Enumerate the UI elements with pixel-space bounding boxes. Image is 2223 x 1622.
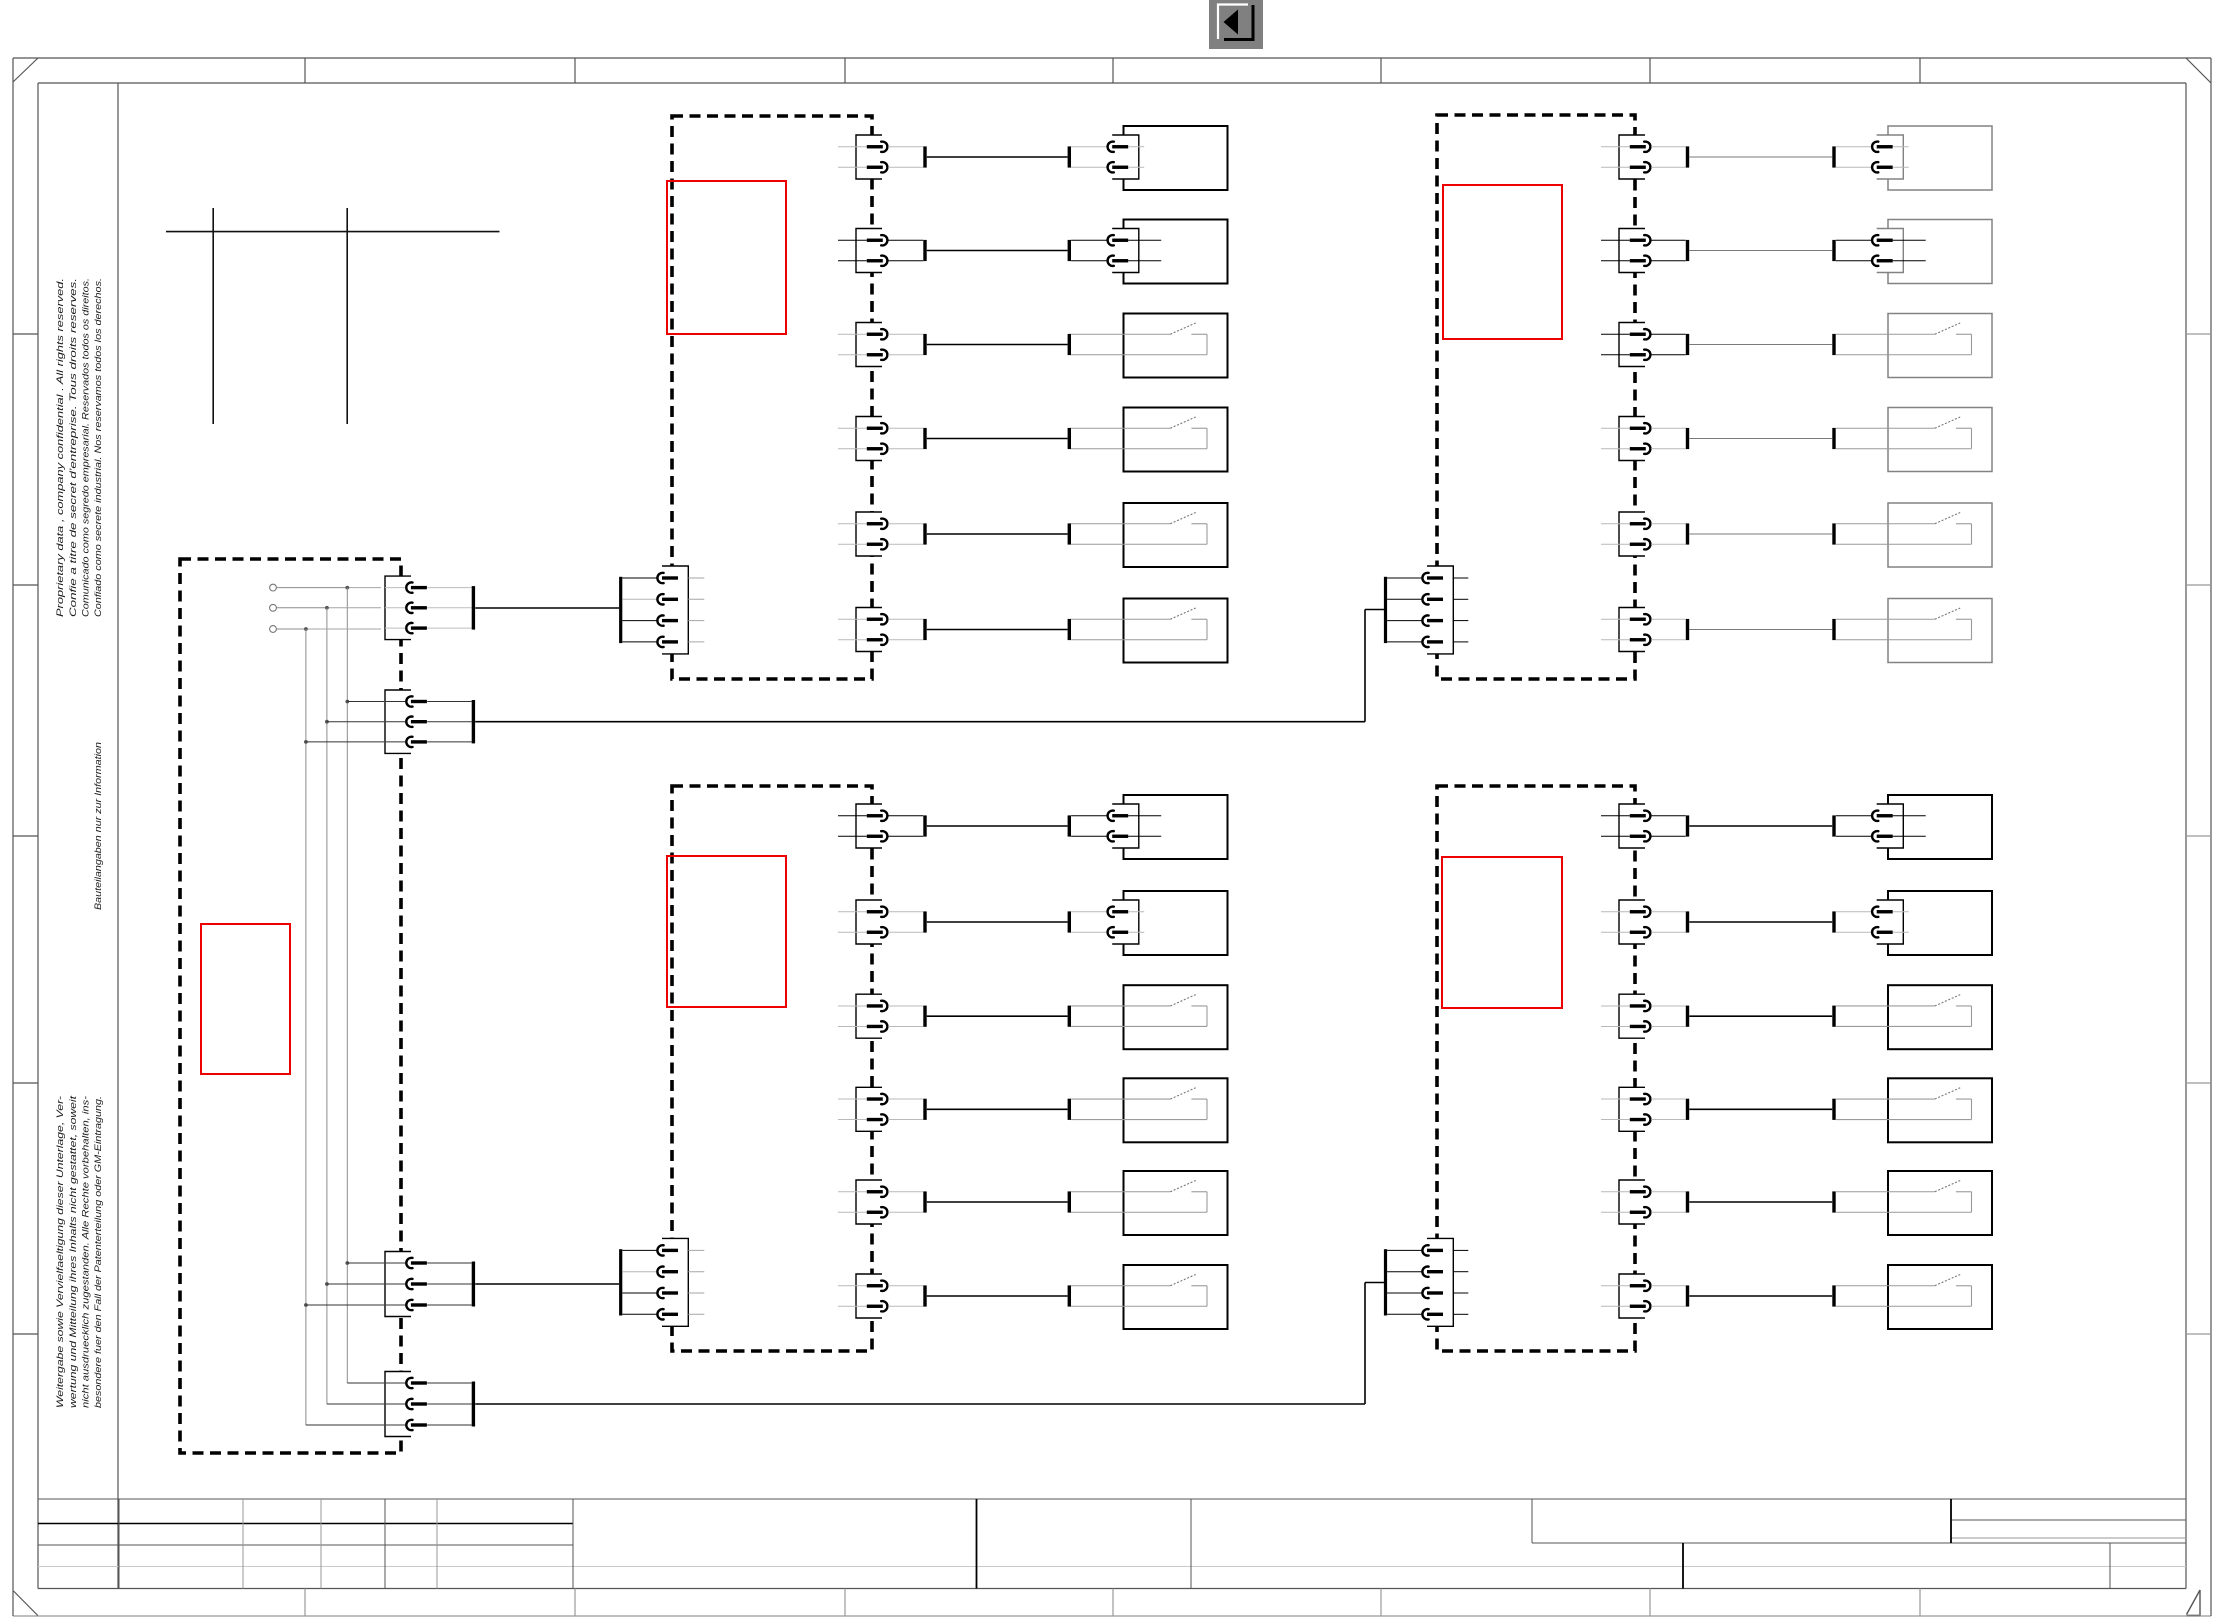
- wire feed rail 3: [305, 629, 307, 1425]
- component box Q3 row2: [1124, 891, 1228, 955]
- switch Q4 row6: [1836, 1274, 1972, 1306]
- splice bar Q2 row4 left: [1686, 428, 1689, 449]
- component box Q1 row6: [1124, 599, 1228, 663]
- splice bar Q3 row5 left: [923, 1191, 926, 1212]
- switch Q3 row6: [1071, 1274, 1207, 1306]
- margin text bauteilangaben: [93, 742, 103, 910]
- component box Q4 row4: [1888, 1078, 1992, 1142]
- wire Q4 row6: [1689, 1295, 1832, 1297]
- connector Q4 row3 left: [1601, 994, 1686, 1038]
- connector Q1 row1 left: [838, 135, 923, 179]
- component box Q1 row4: [1124, 408, 1228, 472]
- splice bar Q1 row6 right: [1068, 619, 1071, 640]
- component box Q1 row3: [1124, 314, 1228, 378]
- wire feed branch 2 C4: [327, 1403, 384, 1405]
- connector Q4 row1 right: [1836, 804, 1926, 848]
- wire feed branch 3 C4: [306, 1424, 384, 1426]
- splice bar Q4 row5 right: [1832, 1191, 1835, 1212]
- component box Q2 row4: [1888, 408, 1992, 472]
- splice bar Q1 row3 right: [1068, 334, 1071, 355]
- connector Q3 row1 left: [838, 804, 923, 848]
- component box Q3 row6: [1124, 1265, 1228, 1329]
- wire Q2 row6: [1689, 629, 1832, 631]
- component box Q1 row5: [1124, 503, 1228, 567]
- connector X2 4-pin inline: [1384, 566, 1468, 654]
- connector X1 4-pin inline: [619, 566, 704, 654]
- splice bar Q1 row5 left: [923, 523, 926, 544]
- splice bar Q4 row1 left: [1686, 815, 1689, 836]
- splice bar Q2 row2 left: [1686, 240, 1689, 261]
- legend crosshair lines: [166, 208, 500, 424]
- connector Q3 row1 right: [1071, 804, 1161, 848]
- splice bar Q3 row2 left: [923, 911, 926, 932]
- wire C4 to X4 long: [475, 1283, 1384, 1405]
- splice bar Q4 row3 left: [1686, 1006, 1689, 1027]
- wire C1 to X1: [475, 607, 619, 609]
- component box Q2 row1: [1888, 126, 1992, 190]
- splice bar Q1 row4 left: [923, 428, 926, 449]
- node junction feed 2 C3: [325, 1282, 329, 1286]
- component box Q2 row2: [1888, 220, 1992, 284]
- wire Q2 row1: [1689, 156, 1832, 158]
- connector Q4 row5 left: [1601, 1180, 1686, 1224]
- splice bar Q2 row5 left: [1686, 523, 1689, 544]
- wire Q1 row2: [927, 250, 1068, 252]
- wire feed rail 1: [346, 588, 348, 1383]
- node junction feed 2 top: [325, 606, 329, 610]
- node junction feed 3 C2: [304, 740, 308, 744]
- wire Q1 row4: [927, 438, 1068, 440]
- wire Q1 row1: [927, 156, 1068, 158]
- connector Q2 row1 right: [1836, 135, 1909, 179]
- splice bar Q3 row6 left: [923, 1285, 926, 1306]
- highlight box red left module: [201, 924, 290, 1074]
- highlight box red Q1: [667, 181, 786, 334]
- highlight box red Q4: [1442, 857, 1562, 1008]
- splice bar Q3 row3 right: [1068, 1006, 1071, 1027]
- splice bar Q2 row3 right: [1832, 334, 1835, 355]
- switch Q3 row3: [1071, 995, 1207, 1027]
- splice bar Q3 row4 right: [1068, 1099, 1071, 1120]
- component box Q3 row4: [1124, 1078, 1228, 1142]
- connector Q2 row5 left: [1601, 512, 1686, 556]
- margin text proprietary notice: [55, 278, 103, 617]
- wire Q2 row5: [1689, 533, 1832, 535]
- node junction feed 1 C2: [345, 700, 349, 704]
- wire feed line 3 top: [277, 628, 382, 630]
- connector Q1 row5 left: [838, 512, 923, 556]
- component box Q4 row6: [1888, 1265, 1992, 1329]
- node junction feed 3 top: [304, 627, 308, 631]
- connector Q4 row4 left: [1601, 1087, 1686, 1131]
- connector Q2 row2 left: [1601, 229, 1686, 273]
- connector C4 3-pin: [385, 1372, 475, 1437]
- svg-text:nicht ausdruecklich zugestand: nicht ausdruecklich zugestanden. Alle Re…: [81, 1096, 91, 1408]
- component box Q3 row5: [1124, 1171, 1228, 1235]
- svg-text:Weitergabe sowie Vervielfael: Weitergabe sowie Vervielfaeltigung diese…: [55, 1096, 65, 1408]
- wire Q3 row4: [927, 1108, 1068, 1110]
- corner mark bottom-right: [2187, 1590, 2201, 1616]
- wire feed branch 3 C2: [306, 741, 384, 743]
- splice bar Q4 row6 left: [1686, 1285, 1689, 1306]
- module housing dashed box Q4: [1437, 786, 1635, 1351]
- wire feed branch 1 C4: [347, 1382, 384, 1384]
- switch Q1 row5: [1071, 512, 1207, 544]
- splice bar Q3 row2 right: [1068, 911, 1071, 932]
- switch Q2 row6: [1836, 608, 1972, 640]
- corner mark top-left: [13, 58, 38, 82]
- connector X4 4-pin inline: [1384, 1238, 1468, 1326]
- splice bar Q1 row3 left: [923, 334, 926, 355]
- wire feed branch 2 C2: [327, 721, 384, 723]
- svg-text:besondere fuer den Fall der Pa: besondere fuer den Fall der Patenterteil…: [93, 1096, 103, 1408]
- node junction feed 3 C3: [304, 1303, 308, 1307]
- switch Q2 row5: [1836, 512, 1972, 544]
- connector terminals circles: [270, 584, 277, 632]
- node junction feed 1 top: [345, 586, 349, 590]
- splice bar Q1 row2 right: [1068, 240, 1071, 261]
- wire Q4 row3: [1689, 1015, 1832, 1017]
- wire Q2 row3: [1689, 344, 1832, 346]
- splice bar Q3 row5 right: [1068, 1191, 1071, 1212]
- title block grid: [38, 1499, 2186, 1589]
- splice bar Q4 row2 left: [1686, 911, 1689, 932]
- splice bar Q2 row3 left: [1686, 334, 1689, 355]
- splice bar Q2 row1 right: [1832, 146, 1835, 167]
- wire Q3 row5: [927, 1201, 1068, 1203]
- switch Q3 row4: [1071, 1088, 1207, 1120]
- node junction feed 2 C2: [325, 720, 329, 724]
- component box Q4 row1: [1888, 795, 1992, 859]
- splice bar Q1 row5 right: [1068, 523, 1071, 544]
- connector Q4 row2 right: [1836, 900, 1909, 944]
- highlight box red Q2: [1443, 185, 1562, 339]
- wire feed line 1 top: [277, 587, 382, 589]
- component box Q2 row5: [1888, 503, 1992, 567]
- component box Q1 row1: [1124, 126, 1228, 190]
- wire feed rail 2: [326, 608, 328, 1404]
- wire feed branch 1 C2: [347, 701, 384, 703]
- wire feed branch 3 C3: [306, 1304, 384, 1306]
- zone ticks top band: [305, 58, 1920, 83]
- splice bar Q1 row2 left: [923, 240, 926, 261]
- component box Q4 row2: [1888, 891, 1992, 955]
- svg-text:Confie a titre de secret: Confie a titre de secret d'entreprise. T…: [68, 278, 78, 617]
- connector Q2 row4 left: [1601, 417, 1686, 461]
- wire Q3 row1: [927, 825, 1068, 827]
- component box Q3 row3: [1124, 985, 1228, 1049]
- wire Q4 row5: [1689, 1201, 1832, 1203]
- connector Q3 row2 right: [1071, 900, 1144, 944]
- connector Q3 row3 left: [838, 994, 923, 1038]
- component box Q2 row6: [1888, 599, 1992, 663]
- connector Q1 row2 right: [1071, 229, 1161, 273]
- splice bar Q4 row5 left: [1686, 1191, 1689, 1212]
- splice bar Q4 row4 right: [1832, 1099, 1835, 1120]
- connector C2 3-pin: [385, 690, 475, 753]
- svg-text:wertung und Mitteilung ihres: wertung und Mitteilung ihres Inhalts nic…: [68, 1095, 78, 1408]
- splice bar Q1 row1 left: [923, 146, 926, 167]
- corner mark top-right: [2186, 58, 2211, 83]
- switch Q2 row4: [1836, 417, 1972, 449]
- wire Q1 row3: [927, 344, 1068, 346]
- connector Q1 row4 left: [838, 417, 923, 461]
- connector Q4 row1 left: [1601, 804, 1686, 848]
- wire feed branch 2 C3: [327, 1283, 384, 1285]
- splice bar Q1 row1 right: [1068, 146, 1071, 167]
- zone ticks right band: [2186, 334, 2211, 1334]
- connector Q3 row4 left: [838, 1087, 923, 1131]
- module housing dashed box Q3: [672, 786, 872, 1351]
- wire Q1 row5: [927, 533, 1068, 535]
- splice bar Q3 row6 right: [1068, 1285, 1071, 1306]
- component box Q2 row3: [1888, 314, 1992, 378]
- svg-text:Bauteilangaben nur zur Informa: Bauteilangaben nur zur Information: [93, 742, 103, 910]
- connector Q1 row2 left: [838, 229, 923, 273]
- switch Q2 row3: [1836, 323, 1972, 355]
- module housing dashed box Q1: [672, 116, 872, 679]
- highlight box red Q3: [667, 856, 786, 1007]
- wire C3 to X3: [475, 1283, 619, 1285]
- switch Q4 row4: [1836, 1088, 1972, 1120]
- switch Q1 row4: [1071, 417, 1207, 449]
- corner mark bottom-left: [14, 1591, 38, 1616]
- switch Q3 row5: [1071, 1180, 1207, 1212]
- splice bar Q3 row3 left: [923, 1006, 926, 1027]
- wire feed branch 1 C3: [347, 1262, 384, 1264]
- splice bar Q2 row2 right: [1832, 240, 1835, 261]
- module housing left dashed box: [180, 559, 401, 1453]
- wire Q2 row4: [1689, 438, 1832, 440]
- splice bar Q2 row1 left: [1686, 146, 1689, 167]
- svg-text:Proprietary data , company: Proprietary data , company confidential …: [55, 278, 65, 617]
- zone ticks left band: [13, 334, 38, 1334]
- wire Q3 row3: [927, 1015, 1068, 1017]
- connector C3 3-pin: [385, 1252, 475, 1317]
- connector Q2 row1 left: [1601, 135, 1686, 179]
- wire Q3 row2: [927, 921, 1068, 923]
- component box Q4 row3: [1888, 985, 1992, 1049]
- svg-text:Comunicado como segredo empre: Comunicado como segredo empresarial. Res…: [81, 278, 91, 617]
- splice bar Q2 row5 right: [1832, 523, 1835, 544]
- splice bar Q3 row1 left: [923, 815, 926, 836]
- connector X3 4-pin inline: [619, 1238, 704, 1326]
- splice bar Q3 row4 left: [923, 1099, 926, 1120]
- splice bar Q1 row4 right: [1068, 428, 1071, 449]
- wire Q4 row1: [1689, 825, 1832, 827]
- component box Q1 row2: [1124, 220, 1228, 284]
- switch Q1 row6: [1071, 608, 1207, 640]
- connector Q3 row6 left: [838, 1274, 923, 1318]
- navigation back button: [1209, 0, 1263, 49]
- wire C2 to X2 long: [475, 610, 1384, 722]
- wire Q1 row6: [927, 629, 1068, 631]
- splice bar Q4 row1 right: [1832, 815, 1835, 836]
- splice bar Q4 row4 left: [1686, 1099, 1689, 1120]
- wire feed line 2 top: [277, 607, 382, 609]
- splice bar Q4 row2 right: [1832, 911, 1835, 932]
- connector Q2 row3 left: [1601, 323, 1686, 367]
- margin text column line: [117, 83, 119, 1589]
- zone ticks bottom band: [305, 1589, 1920, 1617]
- splice bar Q4 row3 right: [1832, 1006, 1835, 1027]
- module housing dashed box Q2: [1437, 115, 1635, 679]
- wire Q4 row4: [1689, 1108, 1832, 1110]
- connector Q1 row6 left: [838, 608, 923, 652]
- switch Q4 row3: [1836, 995, 1972, 1027]
- splice bar Q4 row6 right: [1832, 1285, 1835, 1306]
- connector Q2 row2 right: [1836, 229, 1926, 273]
- wire Q2 row2: [1689, 250, 1832, 252]
- switch Q1 row3: [1071, 323, 1207, 355]
- connector Q2 row6 left: [1601, 608, 1686, 652]
- splice bar Q2 row6 right: [1832, 619, 1835, 640]
- component box Q4 row5: [1888, 1171, 1992, 1235]
- svg-text:Confiado como secrete industri: Confiado como secrete industrial. Nos re…: [93, 278, 103, 617]
- splice bar Q3 row1 right: [1068, 815, 1071, 836]
- connector Q4 row2 left: [1601, 900, 1686, 944]
- connector Q1 row3 left: [838, 323, 923, 367]
- margin text weitergabe notice: [55, 1095, 103, 1408]
- node junction feed 1 C3: [345, 1261, 349, 1265]
- connector Q4 row6 left: [1601, 1274, 1686, 1318]
- splice bar Q2 row4 right: [1832, 428, 1835, 449]
- connector Q3 row5 left: [838, 1180, 923, 1224]
- switch Q4 row5: [1836, 1180, 1972, 1212]
- splice bar Q2 row6 left: [1686, 619, 1689, 640]
- component box Q3 row1: [1124, 795, 1228, 859]
- connector Q1 row1 right: [1071, 135, 1144, 179]
- connector C1 3-pin: [385, 576, 475, 640]
- wire Q4 row2: [1689, 921, 1832, 923]
- splice bar Q1 row6 left: [923, 619, 926, 640]
- wire Q3 row6: [927, 1295, 1068, 1297]
- connector Q3 row2 left: [838, 900, 923, 944]
